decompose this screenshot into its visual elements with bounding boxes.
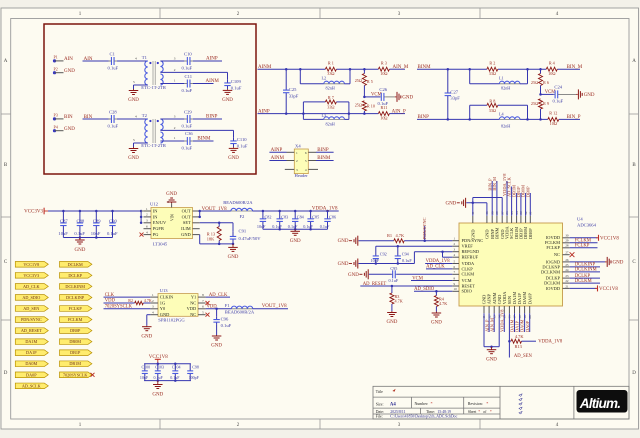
capacitor C10 [182,51,193,70]
net label DCLKP wire [570,274,600,279]
svg-text:U12: U12 [150,201,159,206]
svg-text:0.1uF: 0.1uF [108,66,119,71]
svg-text:R 9: R 9 [543,101,549,106]
net label PDN/SYNC vertical [422,217,427,239]
svg-text:C91: C91 [239,228,247,233]
net label DB1M vertical [512,185,517,216]
svg-text:BINM: BINM [197,137,211,142]
svg-text:R2: R2 [128,298,133,303]
capacitor C36 [182,131,194,151]
T1 pin 1 wire [160,78,184,83]
svg-text:GND: GND [128,98,139,103]
wire rail to U12 inputs [140,210,144,224]
svg-text:VDDA_1V8: VDDA_1V8 [538,340,563,345]
svg-text:0.1uF: 0.1uF [108,124,119,129]
net label BINM filter input [418,65,432,70]
wire SEN pulldown [508,313,511,357]
svg-text:2: 2 [296,159,298,163]
svg-text:1: 1 [174,78,176,82]
svg-text:CLKM: CLKM [462,272,475,277]
svg-text:GND: GND [166,192,177,197]
ground below VCC1V8 bank [152,381,163,398]
regulator U12 [144,200,200,246]
svg-text:AD_SEN: AD_SEN [23,306,39,311]
svg-text:10uF: 10uF [371,258,380,263]
net label AD_SDIO wire [414,287,452,292]
no connect X on U13 pin7 [206,301,210,305]
svg-text:BEAD600R/2A: BEAD600R/2A [225,309,255,314]
svg-text:33Ω: 33Ω [489,108,496,113]
svg-text:4: 4 [305,168,307,172]
port DB0M [60,339,92,345]
port DCLKINM [60,284,92,290]
net label VDDA_1V8 at U4 [425,259,452,264]
inductor L4 [499,111,520,128]
Altium logo [577,390,628,413]
wire U13 GND [147,315,151,326]
ground below R4 [431,312,442,326]
svg-text:AD_SCLK: AD_SCLK [22,383,41,388]
svg-text:30: 30 [565,234,569,238]
svg-text:C1: C1 [110,51,116,56]
svg-text:VDDA: VDDA [462,261,476,266]
svg-text:33Ω: 33Ω [327,71,334,76]
svg-text:Title: Title [376,390,383,394]
transformer T2 [141,113,167,148]
svg-text:GND: GND [485,229,490,239]
title block [373,386,629,419]
svg-text:GND: GND [613,260,624,265]
capacitor C84 [288,211,305,229]
capacitor C95 [369,266,399,283]
svg-text:U4: U4 [577,217,583,222]
svg-text:AD_CLK: AD_CLK [23,284,40,289]
svg-text:GND: GND [211,344,222,349]
net label BIN [84,115,93,120]
svg-text:SDIO: SDIO [462,289,472,294]
svg-text:R 5: R 5 [367,79,373,84]
port DA0M [15,361,48,367]
svg-text:C94: C94 [402,251,410,256]
svg-text:BIN_M: BIN_M [492,177,497,191]
svg-text:DA0P: DA0P [527,293,532,305]
svg-text:0.1uF: 0.1uF [154,375,164,380]
T1 pin 3 wire [160,57,184,61]
svg-text:C27: C27 [450,89,458,94]
svg-text:VCC3V3: VCC3V3 [24,210,43,215]
capacitor C92 [371,251,387,264]
port DA1M [15,339,48,345]
svg-text:C96: C96 [221,317,229,322]
net label DCLKINM wire [570,268,600,273]
capacitor C85 [303,211,319,229]
net label DCLKM wire [570,279,600,284]
capacitor C94 [395,251,413,264]
svg-text:U13: U13 [160,288,169,293]
net label VDD wire [104,299,135,304]
svg-text:DA0P: DA0P [525,320,530,332]
svg-text:10nF: 10nF [91,231,101,236]
svg-text:24: 24 [565,268,569,272]
svg-text:GND: GND [64,69,75,74]
svg-text:C:\Users\41850\Desktop\2ch_ADC: C:\Users\41850\Desktop\2ch_ADC.SchDoc [390,415,457,419]
svg-text:0.1uF: 0.1uF [182,88,193,93]
wire AINM to X4 [269,156,286,161]
net label DA0M vertical [520,313,525,332]
wire C24 to ground [559,93,576,95]
svg-text:0.1uF: 0.1uF [303,224,313,229]
capacitor C86 [320,211,336,229]
wire GND to R1 [359,240,394,242]
resistor R7 [303,95,349,113]
ground left of C95 [348,269,368,279]
svg-text:AD_RESET: AD_RESET [21,328,42,333]
wire X4 to BINM [316,156,334,161]
svg-text:R 3: R 3 [381,60,387,65]
svg-text:DB0M: DB0M [69,339,81,344]
svg-text:5: 5 [133,80,135,84]
svg-text:0.1uF: 0.1uF [320,224,330,229]
capacitor C98 [187,364,199,381]
svg-text:2: 2 [174,68,176,72]
svg-text:R 6: R 6 [543,80,549,85]
svg-text:R11: R11 [380,105,387,110]
ground left of C92 [338,259,358,269]
wire AIN to C1 [83,60,111,62]
capacitor C27 [445,69,461,119]
svg-text:0.1uF: 0.1uF [402,258,412,263]
svg-text:*: * [486,401,488,406]
svg-text:CLKIN: CLKIN [160,295,174,300]
resistor R11 [378,105,389,121]
capacitor C11 [182,74,193,93]
svg-text:R 1: R 1 [328,60,334,65]
svg-text:VCC1V8: VCC1V8 [599,287,618,292]
connector pin P1 AIN [53,55,73,63]
net label AIN_M [393,65,409,70]
svg-text:GND: GND [228,255,239,260]
wire U4 top GND pins [466,198,502,216]
svg-text:26: 26 [565,258,569,262]
ground right of C24 [576,89,595,99]
resistor R9 [531,99,549,120]
net label VOUT_1V8 [202,207,227,212]
svg-text:0.1uF: 0.1uF [231,85,242,90]
svg-text:GND: GND [338,262,349,267]
wire VREF [376,245,453,251]
svg-text:GND: GND [348,273,359,278]
wire IOGND to ground [570,261,605,263]
svg-text:C85: C85 [312,214,319,219]
resistor R8 [470,99,528,120]
svg-text:GND: GND [402,95,413,100]
capacitor C88 [74,211,85,238]
ground below cap bank [74,238,85,253]
svg-text:4.7K: 4.7K [396,233,405,238]
svg-text:33Ω: 33Ω [327,105,334,110]
svg-text:25Ω: 25Ω [531,101,538,106]
resistor R10 [355,101,375,114]
svg-text:Revision:: Revision: [468,402,483,406]
svg-text:DB1P: DB1P [70,350,81,355]
svg-text:VCC1V8: VCC1V8 [23,262,39,267]
ground right of IOGND [605,257,624,267]
svg-text:33Ω: 33Ω [489,71,496,76]
transformer T1 [141,55,167,90]
svg-text:0.47uF/50V: 0.47uF/50V [239,236,262,241]
svg-text:0.1uF: 0.1uF [182,66,193,71]
wire U12 outputs join [198,210,201,218]
resistor R1 4.7K [387,233,405,243]
ground below C110 [228,147,239,161]
svg-text:IN: IN [153,208,158,213]
svg-text:OUT: OUT [182,208,191,213]
svg-text:GND: GND [181,232,191,237]
port VCC1V8 [15,262,48,268]
net label DA1M vertical [510,313,515,332]
resistor R2 [487,60,498,76]
svg-text:23: 23 [565,274,569,278]
port FCLKP [60,306,92,312]
svg-text:P3: P3 [54,113,58,118]
svg-text:R1: R1 [387,233,392,238]
svg-text:82nH: 82nH [326,121,335,126]
resistor R13 4.7K at SEN [511,334,524,349]
svg-text:6: 6 [305,151,307,155]
net label BIN_M vertical [492,177,497,216]
capacitor C26 [378,87,389,106]
svg-text:GND: GND [222,98,233,103]
svg-text:L1: L1 [499,75,504,80]
port DA1P [15,350,48,356]
T2 pin 2 wire to C110 [160,126,233,137]
svg-text:DCLKINP: DCLKINP [66,295,85,300]
wire C1 to T1 pin 4 [117,57,148,61]
svg-text:VDDA_1V8: VDDA_1V8 [312,207,338,212]
capacitor C28 [108,109,119,128]
svg-text:C10: C10 [184,51,192,56]
svg-text:DCLKM: DCLKM [544,281,560,286]
svg-text:BIN: BIN [64,115,73,120]
svg-text:DCLKM: DCLKM [68,262,83,267]
no connect X on U4 NC [570,252,575,257]
net label AINM filter input [258,65,272,70]
net label AIN_P [392,109,406,114]
ferrite bead F1 [225,303,255,315]
wire BINP bottom line [417,118,580,121]
svg-text:10uF: 10uF [257,224,266,229]
svg-text:1G: 1G [160,300,166,305]
svg-text:GND: GND [160,312,170,317]
wire VCC1V8 bottom rail [144,379,191,382]
svg-text:*: * [431,401,433,406]
T2 pin 3 wire [160,115,184,119]
net label DCLKINP wire [570,263,600,268]
capacitor C103 [154,364,164,381]
net label DB0P vertical [525,186,530,216]
svg-text:PGFB: PGFB [153,226,164,231]
svg-text:EN/UV: EN/UV [153,220,167,225]
wire OUT to F2 [200,210,231,212]
svg-text:ILIM: ILIM [181,226,191,231]
capacitor C1 [108,51,119,70]
ground below U4 [486,347,497,363]
svg-text:AIN_M: AIN_M [393,65,409,70]
svg-text:VDDA_1V8: VDDA_1V8 [499,309,504,332]
svg-text:SET: SET [183,220,191,225]
port VCC3V3 [15,273,48,279]
svg-text:0.1uF: 0.1uF [182,146,193,151]
resistor R4 [546,60,557,76]
svg-text:Date:: Date: [376,410,384,414]
wire U12 SET to C91 [200,222,233,232]
wire C95 to U4 CLKM [396,273,452,275]
svg-text:7020SYSCLK: 7020SYSCLK [63,372,87,377]
svg-text:C11: C11 [185,74,193,79]
svg-text:5: 5 [133,138,135,142]
svg-text:GND: GND [128,156,139,161]
wire F1 to VOUT_1V8 [253,304,288,309]
port AD_SEN [15,306,48,312]
svg-text:33pF: 33pF [450,96,460,101]
svg-text:GND: GND [74,248,85,253]
svg-text:C82: C82 [265,214,272,219]
svg-text:R 12: R 12 [549,111,557,116]
net label VDD wire out [206,304,232,310]
wire VDDA cap bottom rail [263,228,328,231]
svg-text:1: 1 [296,151,298,155]
svg-text:28: 28 [565,244,569,248]
capacitor C110 [230,137,248,148]
svg-text:F1: F1 [225,303,231,308]
svg-text:C92: C92 [380,251,387,256]
svg-text:1: 1 [174,136,176,140]
svg-text:D: D [632,371,636,376]
net label AD_SCLK vertical [507,176,512,215]
svg-text:BEAD600R/2A: BEAD600R/2A [223,200,253,205]
svg-text:GND: GND [470,229,475,239]
port PDN/SYNC [15,317,48,323]
wire IOVDD30 to VCC1V8 [570,235,620,242]
capacitor C100 [140,364,150,381]
svg-text:IN: IN [153,214,158,219]
svg-text:GND: GND [141,335,152,340]
svg-text:Y0: Y0 [160,306,166,311]
net label AD_SEN [514,354,533,359]
svg-text:10: 10 [454,287,458,291]
svg-text:GND: GND [386,320,397,325]
wire U4 bottom GND pins [484,313,499,348]
capacitor C29 [182,109,193,128]
T2 pin 5 to GND [133,138,148,147]
power port VCC3V3 [24,208,48,215]
svg-text:25Ω: 25Ω [355,78,362,83]
svg-text:4: 4 [135,115,137,119]
power port VCC1V8 [149,355,168,364]
svg-text:22: 22 [565,279,569,283]
net label BIN_M [567,65,583,70]
svg-text:GND: GND [152,392,163,397]
svg-text:10uF: 10uF [140,375,149,380]
svg-text:C84: C84 [297,214,305,219]
svg-text:4.7K: 4.7K [439,301,447,306]
svg-text:2025/8/11: 2025/8/11 [390,410,405,414]
svg-text:Size:: Size: [376,402,384,406]
svg-text:FCLKP: FCLKP [69,306,83,311]
capacitor C25 [283,69,299,113]
svg-text:DA1M: DA1M [25,339,37,344]
connector pin P3 BIN [53,113,73,121]
ADC U4 [452,211,596,319]
svg-text:C104: C104 [172,364,181,369]
port 7020SYSCLK [60,372,92,378]
svg-text:C89: C89 [93,219,101,224]
svg-text:C86: C86 [329,214,336,219]
svg-text:DCLKINM: DCLKINM [65,284,85,289]
svg-text:0.1uF: 0.1uF [107,231,118,236]
ground below C96 [211,335,222,349]
wire AINM top line [258,68,406,71]
svg-text:15:48:19: 15:48:19 [437,410,451,414]
svg-text:0.1uF: 0.1uF [553,98,564,103]
svg-text:DCLKP: DCLKP [68,273,82,278]
svg-text:10Ω: 10Ω [548,71,555,76]
svg-text:3: 3 [296,168,298,172]
svg-text:VCM: VCM [462,278,472,283]
net label FCLKM wire [570,239,598,244]
svg-text:GND: GND [431,321,442,326]
port DB1M [60,361,92,367]
svg-text:GND: GND [290,239,301,244]
svg-text:GND: GND [228,156,239,161]
svg-text:DB0P: DB0P [528,228,533,239]
svg-text:DB0P: DB0P [70,328,81,333]
svg-text:L3: L3 [322,113,327,118]
net label AIN [84,57,93,62]
port DB1P [60,350,92,356]
ground below VDDA caps [290,229,301,244]
svg-text:82nH: 82nH [501,86,510,91]
net label BIN_P [567,115,581,120]
svg-text:82nH: 82nH [501,123,510,128]
title block texts [376,389,492,419]
port AD_SDIO [15,295,48,301]
wire VDDA_1V8 rail [253,207,339,213]
resistor R1 [325,60,336,76]
svg-text:AIN_M: AIN_M [489,318,494,332]
svg-text:GND: GND [338,239,349,244]
svg-text:*: * [490,410,492,414]
inductor L1 [470,69,528,91]
svg-text:10Ω: 10Ω [380,71,387,76]
net label AD_CLK wire out [206,293,230,298]
port DCLKP [60,273,92,279]
resistor R6 [531,69,549,94]
svg-text:0.1uF: 0.1uF [389,278,399,283]
svg-text:0.1uF: 0.1uF [288,224,298,229]
svg-text:D: D [4,371,8,376]
svg-text:T2: T2 [142,113,148,118]
svg-text:82nH: 82nH [326,86,335,91]
svg-text:A: A [632,59,636,64]
port AD_SCLK [15,383,48,389]
svg-text:10uF: 10uF [58,231,68,236]
wire R1 to U4 PDN/SYNC [404,226,452,242]
svg-text:P1: P1 [54,55,58,60]
net label BINP wire [193,115,222,120]
resistor R2 4.7K at U13 [128,298,152,305]
net label VCM wire [363,92,382,98]
